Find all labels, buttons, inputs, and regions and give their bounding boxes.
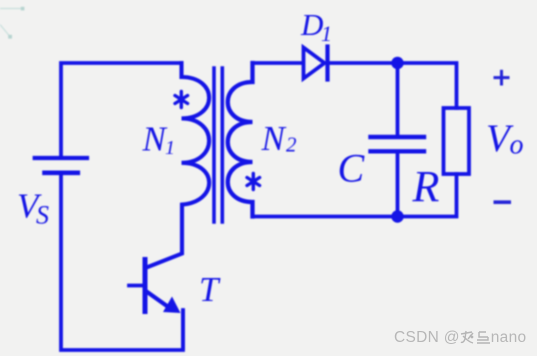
capacitor C bottom plate (371, 149, 425, 153)
wire bottom rail (61, 173, 183, 350)
transistor T base bar (143, 260, 148, 312)
wire capacitor bottom stub (396, 153, 400, 217)
svg-text:T: T (199, 270, 221, 309)
transistor T emitter diagonal (147, 292, 170, 308)
capacitor C top plate (371, 135, 425, 139)
transistor T emitter arrowhead (163, 297, 181, 314)
svg-text:1: 1 (165, 137, 175, 159)
resistor R box (444, 108, 470, 174)
svg-text:1: 1 (321, 21, 332, 46)
primary winding N1 (147, 63, 210, 268)
junction dot bottom (391, 210, 403, 222)
plus sign output (494, 70, 510, 86)
diode D1 cathode bar (325, 47, 329, 80)
transformer core line left (212, 68, 216, 222)
stray teal mark top-left horizontal (0, 7, 24, 11)
diode D1 triangle (304, 48, 325, 79)
battery VS long plate (35, 156, 87, 160)
dot mark asterisk on N2 (247, 174, 260, 190)
svg-text:C: C (338, 146, 366, 191)
transformer core line right (221, 68, 225, 222)
wire capacitor top stub (396, 63, 400, 136)
svg-text:N: N (142, 120, 168, 159)
wire emitter vertical (181, 311, 185, 348)
minus sign output (494, 200, 512, 204)
transistor T base stub (129, 284, 143, 288)
svg-text:R: R (412, 162, 440, 211)
dot mark asterisk on N1 (175, 92, 188, 108)
wire secondary top to diode (253, 61, 303, 65)
secondary winding N2 (228, 63, 253, 217)
svg-text:S: S (36, 201, 49, 230)
watermark CSDN (394, 329, 526, 347)
svg-text:D: D (300, 7, 323, 42)
wire top-left rail (61, 63, 182, 158)
battery VS short plate (45, 171, 78, 176)
svg-text:o: o (510, 130, 524, 161)
junction dot top (391, 57, 403, 69)
svg-text:2: 2 (286, 133, 297, 157)
wire diode to right corner (328, 63, 457, 108)
svg-text:N: N (261, 119, 287, 158)
stray teal mark top-left diagonal (0, 25, 12, 39)
wire resistor bottom to secondary bottom rail (253, 174, 457, 217)
